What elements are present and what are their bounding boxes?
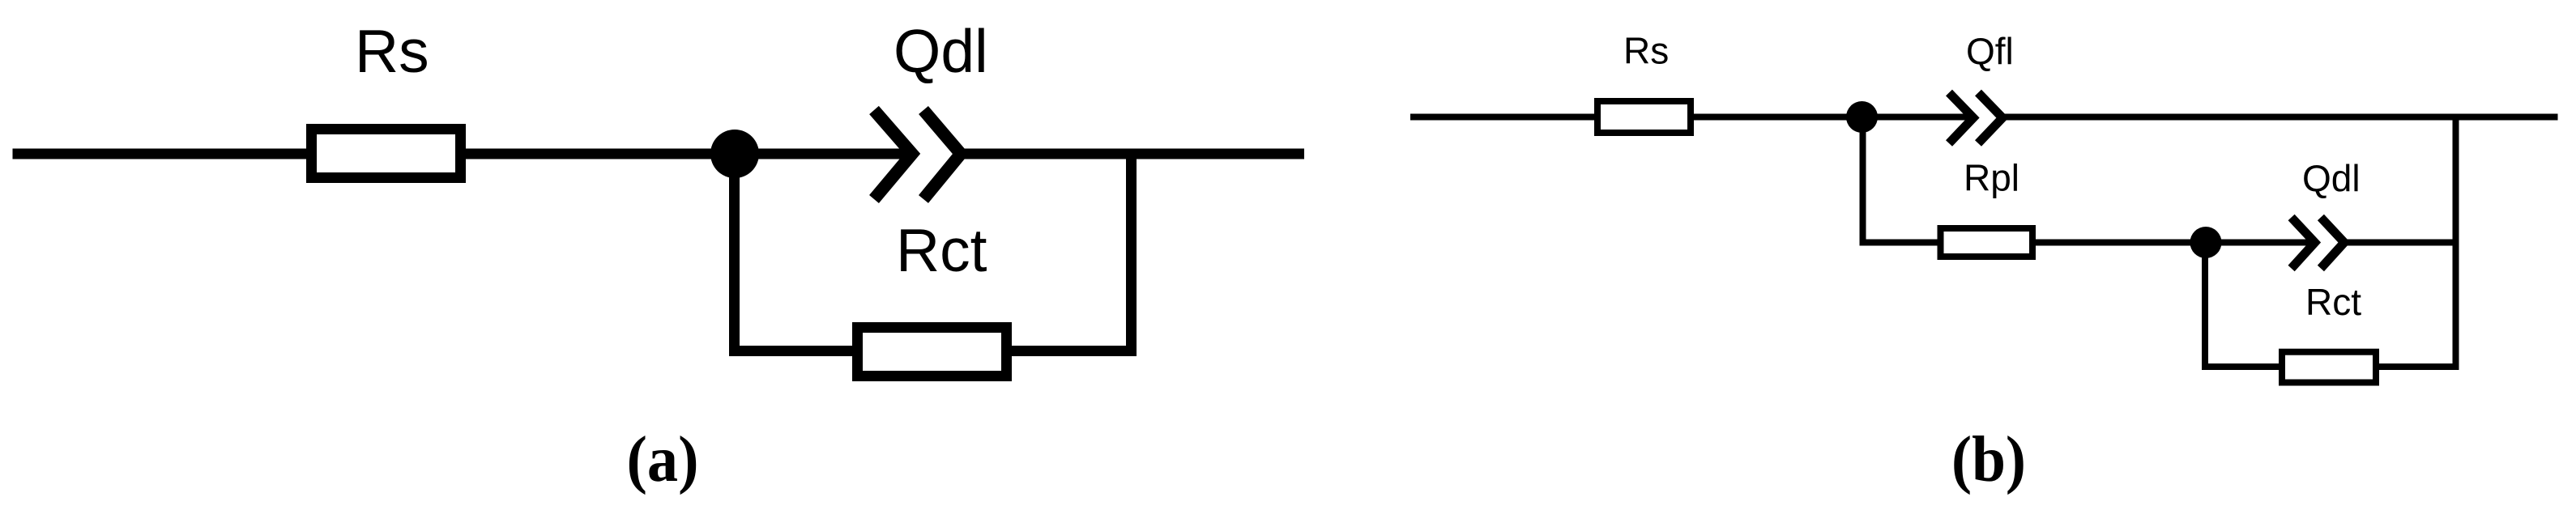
node 2 : junction dot (b)	[2190, 227, 2222, 258]
svg-text:Rct: Rct	[896, 216, 987, 284]
capacitor CPE Qdl (a) chevron 2	[923, 110, 961, 199]
capacitor CPE Qdl (b) chevron 2	[2321, 218, 2344, 269]
capacitor CPE Qfl (b) chevron 2	[1978, 93, 2002, 144]
svg-text:Rs: Rs	[355, 17, 429, 85]
capacitor CPE Qdl (b) chevron 1	[2292, 218, 2315, 269]
wire: (b) bottom branch	[2205, 363, 2456, 370]
svg-text:Qfl: Qfl	[1966, 30, 2014, 72]
svg-text:Rct: Rct	[2305, 281, 2361, 323]
wire: (b) node1 down to middle branch	[1860, 117, 1866, 246]
node A : junction dot (a)	[710, 130, 759, 178]
capacitor CPE Qfl (b) chevron 1	[1949, 93, 1973, 144]
resistor Rct (b) body	[2282, 352, 2376, 383]
svg-text:Rpl: Rpl	[1964, 157, 2019, 199]
svg-text:Rs: Rs	[1623, 30, 1669, 72]
wire: (b) node2 down to bottom branch	[2202, 243, 2208, 371]
wire: (a) Rs to node and CPE apex1	[462, 149, 912, 159]
capacitor CPE Qdl (a) chevron 1	[874, 110, 912, 199]
svg-text:Qdl: Qdl	[893, 17, 988, 85]
wire: (b) middle branch left part to CPE Qdl apex1	[1863, 240, 2315, 246]
wire: (b) CPE Qfl apex2 to right end	[2002, 114, 2558, 121]
resistor Rs (a) body	[312, 130, 461, 178]
svg-text:Qdl: Qdl	[2302, 157, 2361, 199]
wire: (a) CPE apex2 to right end	[961, 149, 1304, 159]
wire: (a) parallel loop (node down, bottom, right up)	[735, 154, 1132, 351]
wire: (b) right vertical	[2453, 114, 2459, 371]
node 1 : junction dot (b)	[1846, 101, 1878, 133]
resistor Rct (a) body	[858, 328, 1007, 376]
resistor Rs (b) body	[1597, 101, 1691, 133]
wire: (b) left lead into Rs	[1410, 114, 1600, 121]
svg-text:(a): (a)	[627, 424, 699, 495]
wire: (b) Rs to node1 and CPE Qfl apex1	[1689, 114, 1973, 121]
wire: (a) left lead into Rs	[13, 149, 317, 159]
svg-text:(b): (b)	[1951, 424, 2026, 495]
wire: (b) middle branch CPE apex2 to right vertical	[2344, 240, 2459, 246]
resistor Rpl (b) body	[1941, 228, 2033, 257]
